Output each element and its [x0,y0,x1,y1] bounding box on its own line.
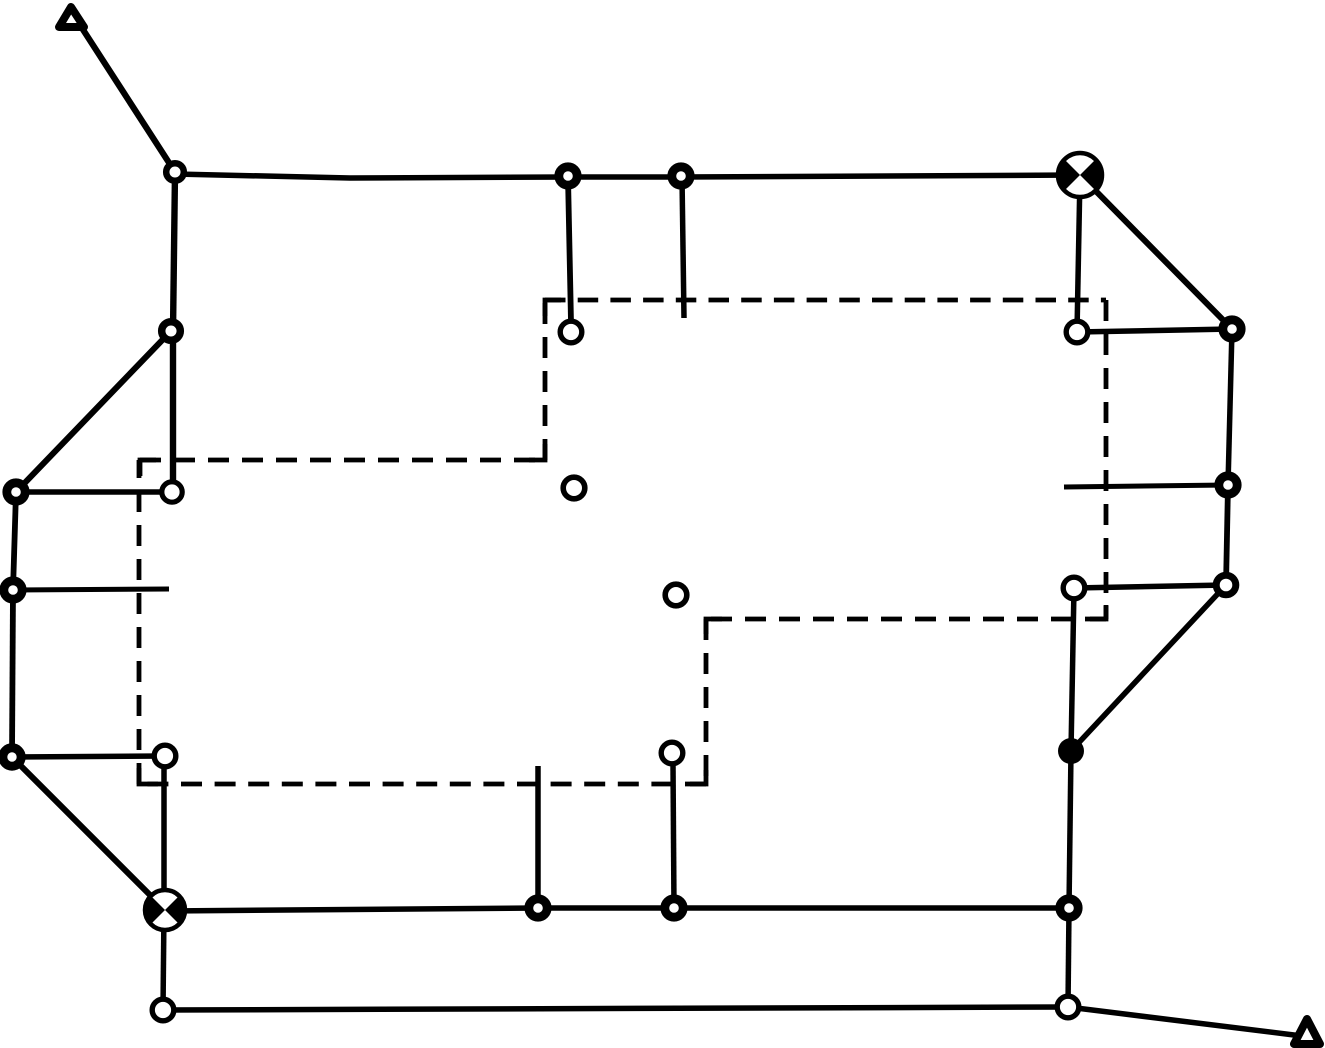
node B1 [162,322,181,341]
dashed boundary segment P8-P1 [137,460,142,784]
wire S2-G1 [163,910,164,1010]
wire stub from A3 [682,177,684,318]
node C4 [1063,577,1085,599]
wire S1-B3 [1077,175,1080,332]
node A1 [166,163,184,181]
dashed boundary segment P2-P3 [543,300,548,460]
wire E1-E2 [12,756,165,757]
wire B1-C1 diagonal [16,331,171,492]
wire C5-C6 [1226,485,1228,585]
wire D1-E1 [12,590,13,757]
source S2 [145,889,185,932]
node C6 [1216,575,1236,595]
node D2 [665,584,687,606]
node E4 [1058,738,1084,764]
node C7 [1223,320,1241,338]
dashed corner L at P8 [139,768,158,784]
dashed corner L at P5 [1090,605,1106,619]
wire C4-C6 [1074,585,1226,588]
node C3 [563,477,585,499]
node C5 [1219,476,1237,494]
wire A2-B2 [568,177,571,322]
wire S1-C7 diagonal [1080,175,1232,329]
wire stub to C5 [1064,485,1228,487]
wire G2 to triangle T2 [1068,1007,1302,1036]
node F1 [529,899,547,917]
wire bottom bus S2-F1 [165,908,538,911]
wire C1-D1 [13,492,16,590]
node E2 [154,745,176,767]
dashed corner L at P3 [545,300,561,316]
wire top feeder A3-S1 [681,175,1080,177]
node C1 [7,483,25,501]
node B2 [560,321,582,343]
wire top feeder A2-A3 [568,174,681,180]
node E1 [3,748,21,766]
wire bottom bus F1-F2 [538,905,674,911]
wire F1 riser [535,766,541,908]
wire top feeder A1-A2 [175,174,568,178]
dashed corner L at P1 [140,460,156,476]
wire E3-F2 [673,764,674,908]
wire B3-C7 [1077,329,1232,332]
node A3 [672,167,690,185]
dashed boundary segment P6-P7 [704,619,709,784]
node B3 [1066,321,1088,343]
wire E4-F3 [1069,751,1071,908]
wire C1-C2 [16,489,172,495]
dashed corner L at P6 [706,619,722,634]
node C2 [162,482,182,502]
node A2 [559,167,577,185]
wire A1-B1 [173,172,175,331]
wire bottom line G1-G2 [163,1007,1068,1010]
node G1 [152,999,174,1021]
dashed boundary segment P4-P5 [1104,300,1109,619]
dashed boundary segment P5-P6 [706,617,1106,622]
dashed boundary segment P7-P8 [139,782,706,787]
wire E2-S2 [161,756,167,910]
node G2 [1057,996,1079,1018]
dashed corner L at P7 [690,770,706,784]
dashed boundary segment P3-P4 [545,298,1106,303]
supply triangle T1 [59,7,84,27]
supply triangle T2 [1294,1019,1320,1044]
node D1 [4,581,22,599]
wire from triangle T1 to node A1 [80,25,175,172]
node F2 [665,899,683,917]
dashed corner L at P2 [529,444,545,460]
node F3 [1060,899,1078,917]
wire bottom bus F2-F3 [674,905,1069,911]
wire F3-G2 [1068,908,1069,1007]
wire stub from D1 [13,589,169,590]
source S1 [1058,151,1102,199]
wire C6-E4 diagonal [1071,585,1226,751]
wire C7-C5 [1228,329,1232,485]
wire C4-E4 [1071,588,1074,751]
wire B1-C2 [170,331,176,492]
wire E1-S2 diagonal [12,757,165,910]
node E3 [661,742,683,764]
dashed boundary segment P1-P2 [140,458,545,463]
